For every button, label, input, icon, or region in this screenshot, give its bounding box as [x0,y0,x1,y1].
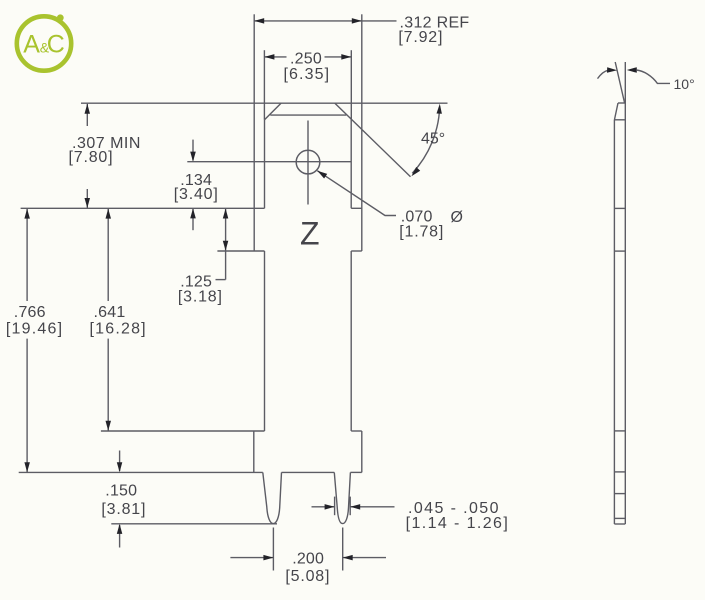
dim .312: left extension line [253,14,255,103]
side view: rail end line [614,207,625,209]
dim 45deg: lower arrowhead [411,167,420,176]
side view: leg tip line [614,517,625,519]
svg-text:[3.18]: [3.18] [178,289,223,306]
dim .125: dim line [225,209,227,280]
svg-text:[7.80]: [7.80] [69,149,114,166]
svg-text:[7.92]: [7.92] [398,29,443,46]
front view: body left edge [264,251,266,431]
front view: right 45-deg tip chamfer extended as angle reference [335,103,411,177]
dim .766: top arrowhead [24,209,30,219]
extension line at leg tip (y=524) [111,523,277,525]
dim .250: left extension line [263,50,265,120]
svg-text:.766: .766 [14,304,46,321]
svg-text:[16.28]: [16.28] [90,321,147,338]
front view: right neck step tick [351,250,362,252]
svg-text:C: C [47,31,65,59]
dim .641: bottom arrowhead [106,421,112,431]
dim .312: right extension line [361,14,363,103]
svg-text:10°: 10° [674,76,695,92]
dim .641: dim line upper segment [107,209,109,301]
hole vertical centerline [307,121,309,205]
dim .312: dimension line with tail [254,20,396,22]
dim .134: lower arrowhead [190,208,196,218]
dim .250: left arrowhead [264,54,274,60]
dim .766: dim line upper segment [26,209,28,301]
svg-text:Ø: Ø [451,209,463,226]
svg-text:[1.78]: [1.78] [399,224,444,241]
side view: 10deg bent tab line [615,62,624,103]
front view: bottom edge between legs [282,471,335,473]
side view: chamfer line [614,119,625,121]
extension line at neck step (y=251) [217,250,264,252]
hole Z (.070 dia) [296,150,320,174]
dim .150: lower arrowhead [117,524,123,534]
dim .045: left arrowhead [325,504,335,510]
logo ring (A&C) [17,16,71,70]
dim .045: right arrow line with tail [350,506,394,508]
dim .125: lower arrowhead [223,241,229,251]
svg-text:[6.35]: [6.35] [284,66,331,83]
side view: right edge extended up [624,62,626,524]
front view: right leg with rounded tip [334,472,350,523]
side view: bottom edge [614,523,625,525]
dim 10deg: left arrowhead [607,67,617,72]
dim .150: lower arrow shaft [119,525,121,548]
svg-text:.150: .150 [105,482,137,499]
svg-text:[3.81]: [3.81] [101,501,146,518]
front view: flange right edge [361,431,363,472]
side view: flange step line [614,430,625,432]
front view: flange left edge [253,431,255,472]
leader .070: arrowhead at hole [317,171,327,179]
front view: top edge / horizontal reference line [81,102,448,104]
side view: bottom flange line [614,471,625,473]
dim .045: right arrowhead [350,504,360,510]
dim .641: top arrowhead [106,209,112,219]
extension line at flange step (y=431) [101,430,265,432]
dim .312: right arrowhead [352,18,362,24]
svg-text:.200: .200 [292,551,324,568]
dim .200: left arrowhead [263,555,273,561]
leader .070: line from hole [317,171,396,216]
dim .045: right leg-edge tick [349,497,351,516]
svg-text:A: A [23,30,40,58]
dim .307: bottom arrowhead [85,198,91,208]
svg-text:.250: .250 [290,50,322,67]
dim .134: upper arrowhead [190,152,196,162]
dim 10deg: right arrowhead [627,67,637,73]
dim .200: right leg centerline [342,528,344,571]
front view: left rail inner edge [264,120,266,209]
dim .307: upper dim line segment [86,104,88,126]
side view: leg taper line [614,493,625,495]
dim .641: dim line lower segment [107,339,109,431]
dim .250: dimension line right segment [325,56,352,58]
dim .766: bottom arrowhead [24,462,30,472]
dim .134: upper arrow shaft [192,140,194,161]
dim .250: right extension line [350,50,352,119]
dim .150: upper arrowhead [117,462,123,472]
dim .045: left arrow line [312,506,335,508]
front view: right flange step tick [351,430,362,432]
dim .766: dim line lower segment [26,339,28,473]
svg-text:[1.14 - 1.26]: [1.14 - 1.26] [406,515,510,532]
dim .125: upper arrowhead [223,209,229,219]
dim 10deg: right leader curve with tail [636,70,670,83]
dim .307: top arrowhead [85,104,91,114]
front view: left leg with rounded tip [263,472,282,523]
front view: bottom edge right of right leg [350,471,361,473]
dim .150: upper arrow shaft [119,451,121,472]
dim .200: right arrow line [343,557,386,559]
dim .250: dimension line left segment [264,56,286,58]
side view: neck step line [614,250,625,252]
front view: left outer edge (tab+neck) [253,103,255,251]
side view: tip taper [614,103,618,120]
extension line at rail end (y=208) [21,207,265,209]
dim .250: right arrowhead [341,54,351,60]
dim .200: left leg centerline [272,528,274,571]
svg-text:[5.08]: [5.08] [285,568,330,585]
dim .134: lower arrow shaft [192,209,194,230]
dim .312: left arrowhead [254,18,264,24]
dim .307: lower dim line segment [86,189,88,208]
svg-text:[3.40]: [3.40] [174,186,219,203]
dim .045: left leg-edge tick [334,497,336,516]
dim 45deg: arc [412,106,440,173]
dim .200: left arrow line [230,557,273,559]
dim 10deg: left leader curve [598,70,609,78]
svg-text:45°: 45° [421,131,445,148]
svg-text:.641: .641 [94,304,126,321]
side view: left edge [613,120,615,524]
logo leaf nub [57,14,64,21]
front view: right outer edge (tab+neck) [361,103,363,251]
front view: chamfer inner edge line [270,114,346,116]
dim .200: right arrowhead [343,555,353,561]
dim .125: leader to text [216,279,226,281]
extension line at bottom edge (y=472) [19,471,263,473]
front view: right rail inner edge [350,119,352,208]
dim 45deg: upper arrowhead [437,104,442,114]
front view: left 45-deg tip chamfer [265,103,282,120]
hole horizontal centerline / .134 extension [187,161,351,163]
svg-text:[19.46]: [19.46] [6,321,63,338]
front view: right rail end tick [351,207,362,209]
svg-text:Z: Z [300,216,320,252]
front view: body right edge [350,251,352,431]
side view: top tip edge [618,102,625,104]
